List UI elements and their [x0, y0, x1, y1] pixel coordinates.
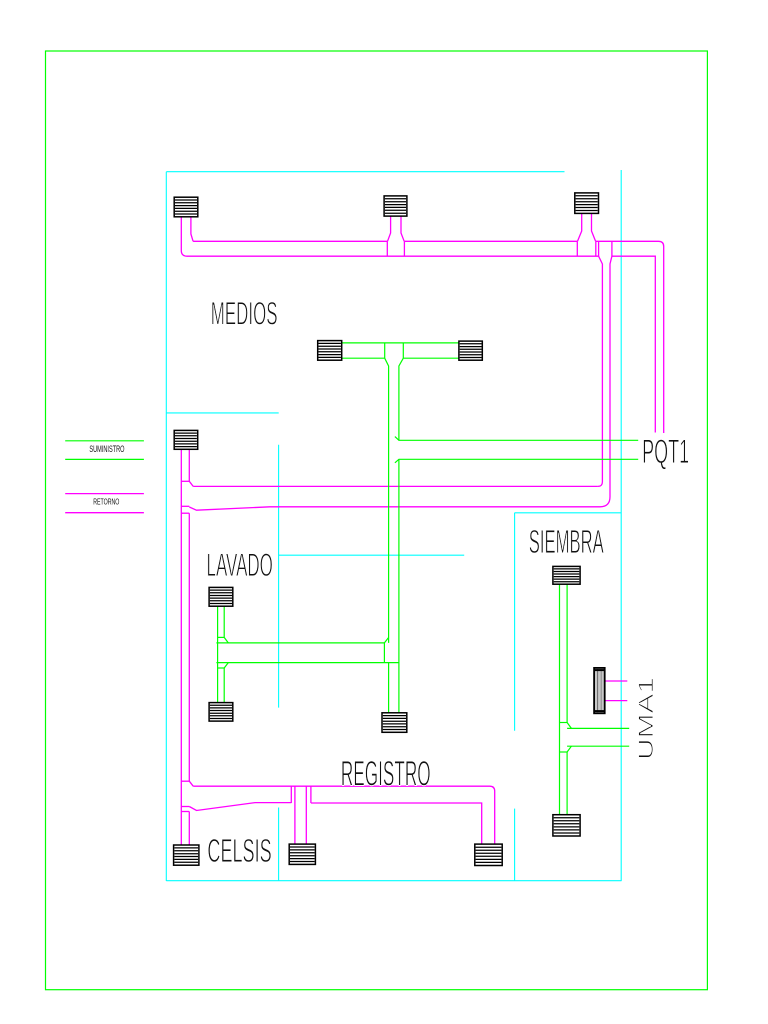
- SIEMBRA riser east line lower: [566, 752, 568, 815]
- UMA1 return stub upper: [605, 680, 627, 682]
- supply T duct top line: [342, 342, 459, 344]
- return main horizontal bottom line: [189, 507, 600, 510]
- return main duct top line seg3 + outer drop to PQT1: [596, 241, 664, 433]
- LAVADO riser east line lower: [223, 668, 225, 703]
- partition vertical upper: [278, 445, 280, 708]
- wall left: [165, 172, 167, 881]
- outer border frame: [46, 51, 708, 990]
- junction flare: [567, 723, 571, 729]
- diffuser D6: [459, 341, 482, 360]
- diffuser D3: [575, 193, 599, 214]
- supply LAVADO branch top line: [216, 638, 388, 643]
- SIEMBRA riser west line: [559, 584, 561, 815]
- return riser east line seg2: [188, 513, 190, 781]
- junction tick: [181, 806, 189, 808]
- svg-text:PQT1: PQT1: [642, 433, 689, 471]
- LAVADO riser east line upper: [223, 606, 225, 637]
- diffuser D2: [384, 196, 407, 216]
- diffuser1 right connector: [191, 217, 193, 242]
- supply main west line upper: [385, 358, 389, 643]
- partition vertical lower: [278, 808, 280, 882]
- junction tick: [181, 780, 189, 782]
- diffuser D1: [174, 197, 198, 217]
- branch edge: [290, 786, 292, 803]
- svg-text:SIEMBRA: SIEMBRA: [529, 523, 604, 560]
- legend return line lower: [65, 512, 144, 514]
- diffuser3 connector right: [592, 213, 596, 241]
- return riser east line seg3: [188, 812, 190, 846]
- wall bottom: [166, 880, 621, 882]
- legend supply line lower: [65, 458, 144, 460]
- junction tick: [560, 751, 568, 753]
- supply main east line upper: [399, 358, 403, 440]
- diffuser D10: [553, 566, 580, 584]
- svg-text:LAVADO: LAVADO: [207, 547, 273, 583]
- junction tick: [560, 722, 568, 724]
- branch edge: [611, 241, 613, 256]
- branch edge: [598, 241, 600, 256]
- svg-text:MEDIOS: MEDIOS: [211, 295, 278, 331]
- takeoff edge: [403, 241, 405, 256]
- supply to UMA1 lower: [567, 745, 629, 747]
- svg-text:CELSIS: CELSIS: [207, 832, 271, 869]
- supply T duct bottom line east: [403, 357, 459, 359]
- REGISTRO duct bottom line west (taper): [189, 803, 291, 811]
- SIEMBRA riser east line upper: [566, 584, 568, 722]
- junction flare: [224, 637, 228, 643]
- supply to UMA1 upper: [567, 727, 629, 729]
- takeoff edge: [595, 241, 597, 256]
- supply T duct bottom line west: [342, 357, 385, 359]
- diffuser D9: [382, 713, 407, 733]
- partition LAVADO top: [279, 554, 465, 556]
- return main duct top line seg1: [193, 240, 387, 242]
- junction flare: [567, 746, 571, 752]
- branch line: [294, 786, 296, 844]
- return drop branch east line: [600, 256, 612, 507]
- svg-text:SUMINISTRO: SUMINISTRO: [89, 444, 124, 455]
- diffuser D12: [289, 844, 315, 864]
- UMA1 return stub lower: [605, 700, 627, 702]
- LAVADO riser west line: [217, 606, 219, 702]
- REGISTRO duct top line + right outer drop: [193, 786, 495, 844]
- svg-text:RETORNO: RETORNO: [93, 497, 119, 507]
- diffuser D8: [209, 703, 233, 722]
- return main duct bottom line (east) + drop to PQT1 inner: [612, 256, 655, 432]
- branch edge: [383, 643, 385, 663]
- return drop branch west line: [598, 256, 603, 486]
- diffuser2 connector right: [401, 216, 404, 241]
- svg-text:REGISTRO: REGISTRO: [341, 755, 431, 794]
- junction tick: [181, 480, 189, 482]
- junction tick: [181, 512, 189, 514]
- unit UMA1: [594, 668, 605, 713]
- wall SIEMBRA top: [515, 512, 622, 514]
- diffuser D7: [209, 587, 233, 606]
- legend supply line upper: [65, 440, 144, 442]
- supply line to PQT1 upper: [395, 437, 638, 441]
- return main horizontal top line: [193, 485, 598, 487]
- junction tick: [181, 505, 189, 507]
- takeoff edge: [576, 241, 578, 256]
- junction flare: [224, 663, 228, 668]
- diffuser D4: [174, 430, 198, 449]
- takeoff edge: [402, 343, 404, 358]
- diffuser D11: [553, 815, 580, 836]
- junction flare: [189, 481, 193, 486]
- return riser west line: [180, 449, 182, 845]
- junction tick: [218, 667, 225, 669]
- junction tick: [218, 636, 225, 638]
- REGISTRO duct bottom line east + right inner drop: [311, 803, 482, 844]
- svg-text:UMA1: UMA1: [635, 677, 658, 760]
- wall SIEMBRA left lower: [514, 809, 516, 881]
- supply main east line lower: [398, 459, 400, 713]
- branch line: [305, 786, 307, 844]
- wall top: [166, 171, 564, 173]
- diffuser D13: [475, 844, 502, 865]
- supply LAVADO branch bottom line: [216, 662, 399, 664]
- wall right: [620, 170, 622, 881]
- return riser east line seg1: [188, 449, 190, 481]
- takeoff edge: [386, 241, 388, 256]
- supply main west line lower: [388, 663, 390, 713]
- supply line to PQT1 lower: [395, 459, 638, 463]
- diffuser D5: [318, 341, 342, 361]
- partition MEDIOS/LAVADO: [166, 412, 278, 414]
- legend return line upper: [65, 493, 144, 495]
- takeoff edge: [384, 343, 386, 358]
- diffuser3 connector left: [578, 213, 582, 241]
- diffuser D14: [174, 845, 199, 865]
- branch edge: [310, 786, 312, 803]
- junction flare: [189, 781, 193, 786]
- wall SIEMBRA left upper: [514, 513, 516, 731]
- return main duct top line seg2: [404, 240, 577, 242]
- return main duct: left drop + bottom line (west part): [181, 217, 598, 256]
- diffuser2 connector left: [388, 216, 391, 241]
- junction tick: [181, 811, 189, 813]
